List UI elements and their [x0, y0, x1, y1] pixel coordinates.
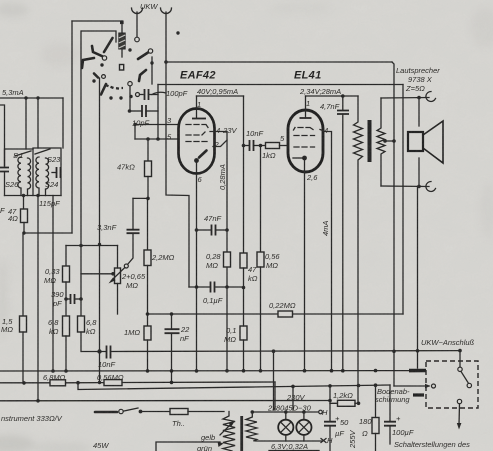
wire lamp bottom y441 — [254, 440, 322, 442]
wire x38 coil bottom to bus3 — [37, 196, 39, 402]
wire x26 coil S1 feed — [25, 98, 27, 149]
tube U1 anode plate and pin1 lead — [196, 96, 198, 118]
dashed box UKW Anschluss — [426, 361, 478, 408]
junction dots 390pF — [64, 297, 68, 301]
bus2 wire y382.5 — [0, 382, 50, 384]
antenna A1 symbol — [132, 8, 143, 37]
coil L-switch hatched element — [119, 21, 125, 58]
junction dot 148,198 — [146, 197, 150, 201]
bus1 ground wire y371 — [0, 370, 410, 372]
wire y245 pot top — [66, 245, 118, 247]
wire x53 down to bus1 — [52, 196, 54, 372]
junction dot pin3 — [133, 123, 137, 127]
wire x133 down to 3,3nF — [132, 198, 134, 229]
wire antenna A2 down left of EAF42 — [166, 12, 189, 287]
resistor 2,2M — [147, 198, 149, 250]
wire EAF42 pin2 — [213, 140, 227, 147]
contact circle top — [458, 367, 462, 371]
switch contact circle S-f — [102, 75, 106, 79]
junction dots y351 — [97, 349, 101, 353]
wire switch box top — [72, 20, 122, 22]
resistor 0,33M — [65, 246, 67, 267]
resistor 1M — [144, 326, 151, 340]
wire bottom contact arrow down — [458, 404, 461, 425]
switch contact circle S-d — [148, 49, 152, 53]
bus3 wire y400.5 — [0, 400, 330, 402]
contact circle left — [432, 384, 436, 388]
tube U1 grid g1 dashes — [186, 125, 208, 128]
wire dash box top feed — [459, 351, 461, 367]
tube U1 diode plate stroke — [199, 151, 207, 158]
junction dot 81,245 — [79, 244, 83, 248]
resistor 47k anode — [240, 253, 247, 268]
capacitor left edge plates — [0, 168, 9, 172]
tube U2 grid g1 dashes — [294, 128, 314, 131]
switch junction dots — [100, 63, 103, 66]
speaker LS1 magnet — [408, 132, 423, 151]
wire EAF42 pin5 — [135, 138, 179, 140]
tube U2 cathode dot and lead — [302, 156, 307, 161]
capacitor 10nF coupling — [242, 140, 266, 151]
tube U1 grid g2 dashes — [186, 132, 205, 135]
wire coil bottom y195.5 — [5, 195, 62, 197]
speaker LS1 leads — [418, 98, 420, 126]
switch small square contact — [120, 65, 124, 71]
wire x38 coil feed — [37, 98, 39, 148]
wire long vertical left x72 — [71, 21, 73, 233]
terminal circle H top — [319, 410, 323, 414]
capacitor 22nF — [165, 314, 180, 383]
resistor 0,22M horizontal on y314 — [278, 311, 293, 317]
junction dots on pin5 wire — [146, 137, 150, 141]
resistor 1,2k — [330, 386, 360, 406]
junction dot x26 y98 — [24, 96, 27, 99]
wire x394 right box drop — [392, 62, 394, 386]
tube U1 cathode dot — [194, 158, 199, 163]
wire x135 — [134, 125, 136, 140]
tube U1 EAF42 envelope — [179, 109, 215, 174]
junction dots bus3 — [36, 399, 40, 403]
switch contact bar S-a — [104, 38, 113, 52]
lamp La2 — [296, 410, 311, 441]
wire x293 mains drop — [292, 386, 294, 410]
wire x417 from speaker bottom — [417, 186, 419, 350]
wire y98 from left edge — [0, 97, 63, 99]
transformer T1 tap with arrow — [383, 139, 396, 143]
wire x4.5 below cap — [4, 172, 6, 196]
tube U2 grid g2 dashes — [294, 135, 315, 137]
wire x99.5 switch to pot wire — [99, 78, 101, 383]
wire EAF42 pin4 — [210, 132, 227, 371]
junction dots y314 — [146, 312, 150, 316]
wire into box with arrow — [394, 385, 429, 387]
antenna A1 terminal — [135, 37, 140, 42]
junction dot 113.5,274 — [111, 272, 115, 276]
wire EL41 pin4 screen — [320, 130, 332, 371]
wire switch box inner — [82, 31, 116, 42]
resistor 47kOhm grid — [147, 139, 149, 161]
junction dot speaker bottom — [417, 185, 421, 189]
wire speaker top y98 — [381, 97, 429, 100]
junction dot speaker top — [417, 96, 421, 100]
tube U2 grid g3 dashes — [294, 146, 315, 148]
wire x275 drop from bus2 — [274, 382, 276, 410]
capacitor 47nF — [195, 225, 229, 236]
capacitor 0,1uF — [189, 282, 245, 293]
wire x273 drop to mains — [273, 351, 275, 410]
resistor 6,8k left — [63, 316, 70, 336]
resistor 1,5M vertical — [22, 233, 24, 316]
junction dot grid leak tap — [259, 144, 263, 148]
wire speaker bottom y186 — [381, 185, 429, 188]
junction dot band line antenna lead — [164, 60, 168, 64]
speaker LS1 cone — [423, 121, 443, 163]
wire x403 AVC feedback drop — [402, 85, 404, 315]
switch contact bar S-c — [82, 58, 94, 68]
bus1 Bodenabschirmung thick end — [409, 369, 426, 373]
capacitor 390pF — [66, 294, 81, 304]
switch dot f — [109, 96, 112, 99]
contact circle right — [467, 383, 471, 387]
resistor 1k grid stopper — [266, 143, 280, 149]
junction dot x38 y98 — [36, 96, 39, 99]
junction dot x99.5 pot wire — [98, 243, 101, 246]
wire EL41 cathode pins 2,6 down — [304, 160, 306, 371]
IF transformer S23/S24 coil — [35, 149, 50, 196]
wire EAF42 pin6 down — [196, 163, 198, 371]
junction dots busB — [291, 385, 295, 389]
wire EAF42 pin3 grid — [135, 124, 179, 126]
switch contact bar S-e — [139, 70, 146, 81]
wire y105 left edge stub — [0, 105, 5, 166]
transformer T2 mains primary — [223, 412, 235, 451]
antenna A2 symbol — [161, 8, 172, 14]
terminal x cross H bottom — [321, 439, 326, 443]
tube U2 anode plate and pin1 lead — [305, 96, 307, 118]
speaker LS1 terminal arcs — [426, 91, 436, 191]
junction dot 4,7nF tap — [341, 94, 345, 98]
switch contact bar S-b — [92, 46, 104, 57]
wire EAF42 pin1 to HT y96 — [197, 95, 244, 97]
tube U1 grid g3 dashes — [186, 141, 207, 143]
wire switch stub x152 — [151, 57, 153, 84]
wire y351 long with 10nF — [82, 350, 460, 353]
wire tube-name band bottom line / AVC line — [158, 84, 403, 86]
wire lamp feed y412 — [252, 411, 320, 413]
tube U2 EL41 envelope — [288, 110, 323, 172]
coil can box S23/S24 — [33, 148, 61, 196]
resistor 0,56M grid leak — [260, 146, 262, 253]
junction dots bus2 — [22, 381, 26, 385]
wire y273 to pot — [81, 273, 113, 275]
capacitor C 10pF — [128, 105, 158, 117]
contact circle bottom — [457, 399, 461, 403]
switch contact circle S-c — [102, 56, 106, 60]
wire 115pF stub — [52, 172, 57, 174]
wire x63 down to coil box — [62, 98, 64, 148]
capacitor 50uF electrolytic — [324, 403, 336, 451]
capacitor C 100pF — [136, 89, 159, 100]
wire EL41 pin1 HT — [306, 95, 359, 97]
resistor 0,56M in bus2 — [104, 380, 122, 386]
potentiometer 2+0,65M — [109, 246, 129, 315]
fuse Th — [170, 409, 188, 415]
capacitor 4,7nF — [337, 96, 349, 371]
junction dots bus1 — [51, 369, 55, 373]
wire transformer box outline — [156, 442, 220, 451]
coil can box S1/S26 — [5, 149, 34, 196]
resistor 0,28M — [224, 252, 231, 267]
junction dot 24,233 — [22, 231, 25, 234]
transformer T1 core bar — [368, 120, 372, 162]
wire x158 AVC drop to grid — [157, 85, 159, 140]
wire tube-name band top line — [166, 61, 392, 63]
switch contact bar S-d — [138, 53, 148, 60]
junction dot x417 y351 — [416, 349, 420, 353]
switch contact bar S-f2 — [101, 84, 106, 95]
resistor 180 Ohm — [372, 385, 379, 451]
wire y314 long — [148, 313, 404, 315]
resistor 47ohm vertical — [23, 196, 25, 210]
ground bar schirmung — [413, 393, 424, 396]
switch mains lever — [95, 408, 170, 414]
contact lever — [461, 372, 468, 383]
resistor 6,8M in bus2 — [50, 380, 66, 386]
wire x243 HT drop — [243, 96, 245, 253]
wire x418 UKW box drop to bar — [417, 351, 419, 368]
wire x133 below 3,3nF to pot wiper — [128, 233, 134, 264]
transformer T2 secondary — [246, 412, 257, 441]
resistor 6,8k right — [78, 316, 85, 332]
wire A y198 — [133, 197, 148, 199]
wire long vertical x81 — [80, 31, 82, 316]
capacitor 10nF bottom plates — [107, 346, 111, 359]
transformer T1 output primary — [354, 96, 363, 403]
capacitor 3,3nF plates — [127, 230, 140, 234]
IF transformer S1/S26 coil — [15, 151, 31, 196]
resistor 0,1M — [240, 326, 247, 340]
junction dots coil bottom — [22, 194, 25, 197]
wire y233 — [24, 232, 73, 234]
busB B+ wire sloped — [78, 383, 390, 390]
switch contact circle 130 with wire to 10pF node — [128, 82, 132, 86]
transformer T1 secondary — [377, 98, 385, 186]
switch wiper dashed arc — [106, 85, 124, 89]
lamp La1 — [278, 410, 293, 441]
transformer T2 core bar — [240, 416, 243, 451]
capacitor 100uF electrolytic — [384, 385, 396, 444]
capacitor 115pF plates — [57, 167, 61, 178]
switch contact bar S-f1 — [94, 74, 98, 78]
junction dot x394 y351 — [392, 350, 396, 354]
